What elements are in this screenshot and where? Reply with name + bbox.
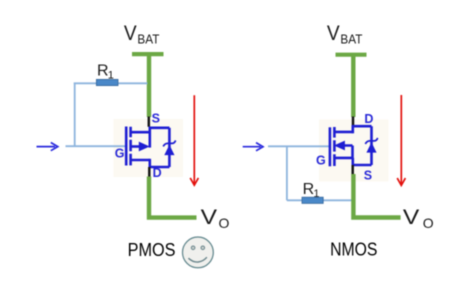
drain node vertical — [351, 125, 354, 133]
V_BAT supply bar (right) — [336, 53, 367, 57]
svg-text:V: V — [403, 206, 419, 229]
svg-text:D: D — [364, 112, 373, 126]
wire: gate loop top (light blue, left) — [74, 82, 148, 84]
transistor Q2 NMOS symbol — [330, 125, 372, 166]
wire: drain lead black segment (left) — [148, 167, 151, 178]
transistor Q1 PMOS symbol — [126, 127, 169, 168]
svg-text:D: D — [153, 166, 162, 180]
source node vertical — [149, 127, 152, 148]
body diode of Q2: cathode — [365, 138, 377, 144]
body diode of Q2: triangle — [366, 142, 376, 152]
body lead — [344, 146, 353, 159]
drain bar to diode branch — [149, 166, 170, 169]
current arrow (red, left) — [190, 95, 198, 185]
svg-text:BAT: BAT — [137, 32, 159, 47]
wire: gate input (light blue, left) — [66, 145, 127, 147]
body-diode branch vertical — [370, 126, 373, 165]
svg-text:NMOS: NMOS — [330, 239, 377, 259]
svg-text:BAT: BAT — [340, 32, 362, 47]
svg-text:V: V — [124, 22, 137, 45]
label V_BAT (left) — [124, 22, 160, 47]
wire: source lead black segment (right) — [351, 165, 354, 175]
label R1 (right) — [303, 181, 320, 200]
wire: V_BAT to drain (green, right) — [351, 55, 355, 117]
svg-text:O: O — [423, 215, 434, 231]
resistor R1 (left) — [96, 79, 118, 85]
input arrow (left) — [37, 143, 58, 151]
body diode of Q1: cathode — [163, 140, 175, 146]
drain lead (top) — [334, 131, 352, 134]
label R1 (left) — [97, 62, 114, 81]
wire: gate loop left vertical (light blue, left) — [74, 83, 76, 147]
label V_O (left) — [201, 206, 230, 231]
source bar to diode branch — [149, 127, 170, 130]
source node vertical — [351, 158, 354, 165]
wire: source to output (green, right) — [353, 174, 400, 218]
wire: drain lead black segment (right) — [352, 117, 355, 127]
source lead (bottom) — [334, 157, 352, 160]
svg-text:V: V — [327, 22, 340, 45]
body arrow of Q1 (points right) — [139, 142, 150, 152]
body diode of Q1: triangle — [164, 145, 174, 155]
source lead (top) — [131, 131, 150, 134]
wire: drain to output (green, left) — [149, 177, 197, 218]
source bar to diode branch — [352, 164, 372, 167]
body lead — [131, 145, 140, 148]
label V_O (right) — [403, 206, 434, 231]
smiley face — [183, 237, 214, 268]
drain bar to diode branch — [353, 125, 372, 128]
body-diode branch vertical — [168, 128, 171, 167]
channel segments — [333, 127, 336, 166]
channel segments — [129, 127, 132, 166]
drain node vertical — [149, 159, 152, 167]
gate line — [329, 127, 332, 166]
transistor background box Q1 — [114, 119, 184, 177]
svg-text:G: G — [316, 154, 326, 168]
input arrow (right) — [243, 143, 263, 151]
wire: R1 to source (light blue, right) — [287, 199, 353, 201]
label V_BAT (right) — [327, 22, 363, 47]
transistor background box Q2 — [319, 120, 389, 182]
wire: V_BAT to source (green, left) — [147, 54, 151, 117]
V_BAT supply bar (left) — [132, 52, 164, 56]
svg-text:V: V — [201, 206, 217, 229]
svg-text:G: G — [115, 147, 125, 161]
drain lead (bottom) — [131, 159, 150, 162]
gate line — [125, 127, 128, 166]
svg-text:S: S — [364, 168, 372, 182]
svg-text:S: S — [152, 112, 160, 126]
wire: gate input (light blue, right) — [268, 145, 331, 147]
svg-text:PMOS: PMOS — [128, 240, 176, 260]
svg-text:O: O — [219, 215, 230, 231]
wire: gate to R1 vertical (light blue, right) — [286, 146, 288, 200]
wire: source lead black segment (left) — [148, 117, 151, 127]
current arrow (red, right) — [397, 95, 405, 185]
resistor R1 (right) — [302, 197, 323, 203]
body arrow of Q2 (points left) — [334, 141, 345, 151]
